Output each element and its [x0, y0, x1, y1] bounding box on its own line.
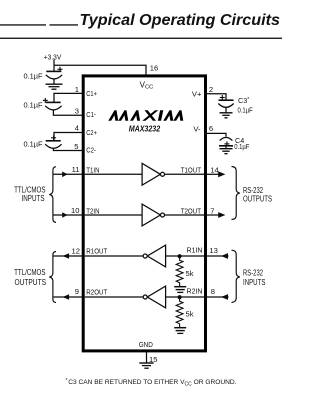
capacitor C2 0.1uF curved plate — [45, 144, 61, 148]
svg-text:11: 11 — [72, 165, 80, 174]
wire capacitor C4 to ground — [225, 146, 227, 149]
svg-text:T2IN: T2IN — [86, 206, 99, 215]
brace TTL/CMOS inputs — [49, 167, 56, 223]
svg-text:T2OUT: T2OUT — [181, 206, 202, 215]
svg-text:T1IN: T1IN — [86, 165, 99, 174]
svg-text:6: 6 — [209, 124, 213, 133]
wire pin 11 to T1 driver input — [85, 173, 142, 175]
svg-text:1: 1 — [75, 85, 79, 94]
svg-text:R1IN: R1IN — [187, 246, 203, 255]
wire pin 12 to R1 receiver — [85, 255, 143, 257]
resistor 5k (R2 input pulldown) — [176, 297, 183, 328]
arrow T1OUT output — [218, 171, 225, 177]
arrow T2IN input — [62, 212, 67, 218]
junction R2IN node — [178, 295, 182, 299]
wire T2IN input to pin 10 — [54, 214, 84, 216]
svg-text:OUTPUTS: OUTPUTS — [243, 195, 272, 204]
wire capacitor C3 to ground — [225, 107, 227, 112]
buffer T2 driver triangle — [142, 204, 160, 226]
wire pin 13 R1IN external — [206, 255, 229, 257]
capacitor C3 0.1uF curved plate — [218, 104, 233, 108]
polarity plus (C4) — [224, 141, 229, 146]
resistor 5k (R1 input pulldown) — [176, 256, 183, 287]
svg-text:10: 10 — [71, 206, 79, 215]
horizontal rule — [0, 38, 282, 39]
svg-text:C2+: C2+ — [86, 128, 97, 137]
wire pin 15 GND stub — [146, 351, 148, 363]
svg-text:0.1µF: 0.1µF — [24, 71, 44, 80]
svg-text:0.1µF: 0.1µF — [24, 140, 44, 149]
arrow R1OUT output — [63, 253, 70, 259]
svg-text:15: 15 — [149, 355, 157, 364]
svg-text:0.1µF: 0.1µF — [238, 106, 254, 115]
svg-text:MAX3232: MAX3232 — [129, 124, 161, 133]
brace RS-232 outputs — [232, 167, 240, 220]
polarity plus (C2) — [51, 135, 56, 140]
svg-text:7: 7 — [210, 207, 214, 216]
ground (C4) — [220, 148, 233, 150]
svg-text:C2-: C2- — [86, 146, 96, 155]
wire VCC rail to pin 16 — [54, 65, 146, 75]
wire R2 receiver output to pin 9 — [54, 296, 84, 298]
svg-text:INPUTS: INPUTS — [243, 278, 265, 287]
buffer T1 driver triangle — [142, 163, 160, 185]
svg-text:OUTPUTS: OUTPUTS — [15, 278, 47, 287]
capacitor 0.1uF (VCC bypass) curved plate — [46, 75, 62, 79]
buffer R2 receiver triangle — [147, 286, 165, 308]
svg-text:2: 2 — [209, 85, 213, 94]
svg-text:C1-: C1- — [86, 110, 96, 119]
svg-text:12: 12 — [72, 247, 80, 256]
svg-text:5k: 5k — [186, 310, 194, 319]
arrow T2OUT output — [218, 212, 225, 218]
svg-text:C1+: C1+ — [86, 89, 97, 98]
svg-text:*C3 CAN BE RETURNED TO EITHER: *C3 CAN BE RETURNED TO EITHER VCC OR GRO… — [66, 378, 237, 387]
arrow T1IN input — [62, 172, 67, 178]
svg-text:RS-232: RS-232 — [243, 269, 263, 278]
svg-text:Typical Operating Circuits: Typical Operating Circuits — [80, 12, 281, 29]
wire pin 1 C1+ to capacitor C1 — [54, 93, 83, 102]
capacitor C1 0.1uF curved plate — [45, 106, 61, 110]
ground (pin 15) — [139, 362, 153, 364]
wire R1 receiver input to pin 13 — [166, 255, 205, 257]
svg-text:9: 9 — [75, 287, 79, 296]
svg-text:14: 14 — [210, 166, 218, 175]
ground (bypass cap) — [46, 83, 63, 85]
wire R1 receiver output to pin 12 — [54, 255, 84, 257]
wire T1 driver output to pin 14 — [165, 173, 204, 175]
svg-text:16: 16 — [150, 64, 158, 73]
wire pin 2 V+ to capacitor C3 — [206, 94, 227, 100]
buffer T2 inverter bubble — [161, 213, 165, 217]
polarity plus (C1) — [43, 98, 48, 103]
svg-text:V+: V+ — [192, 89, 202, 98]
capacitor C2 0.1uF top plate — [46, 140, 61, 142]
arrow R2IN input — [221, 294, 228, 300]
svg-text:5k: 5k — [186, 269, 194, 278]
svg-text:R1OUT: R1OUT — [86, 247, 107, 256]
MAXIM logo — [108, 110, 185, 121]
wire capacitor C2 to pin 5 C2- — [53, 148, 83, 150]
wire T2 driver output to pin 7 — [165, 214, 204, 216]
svg-text:R2OUT: R2OUT — [86, 288, 107, 297]
svg-text:GND: GND — [139, 340, 153, 349]
svg-text:T1OUT: T1OUT — [181, 165, 202, 174]
arrow R1IN input — [221, 253, 228, 259]
wire pin 4 C2+ to capacitor C2 — [54, 133, 83, 141]
svg-text:4: 4 — [75, 124, 79, 133]
capacitor C3 0.1uF top plate — [219, 99, 234, 101]
svg-text:INPUTS: INPUTS — [22, 194, 45, 203]
wire pin 14 T1OUT external — [206, 173, 219, 175]
wire R2 receiver input to pin 8 — [166, 296, 205, 298]
svg-text:0.1µF: 0.1µF — [234, 142, 250, 151]
buffer R1 receiver triangle — [147, 245, 165, 267]
ground (R2 5k) — [174, 327, 186, 329]
svg-text:3: 3 — [75, 107, 79, 116]
wire capacitor C1 to pin 3 C1- — [53, 110, 83, 115]
svg-text:5: 5 — [74, 142, 78, 151]
capacitor C1 0.1uF top plate — [46, 101, 61, 103]
capacitor 0.1uF (VCC bypass) top plate — [46, 70, 61, 72]
svg-text:0.1µF: 0.1µF — [24, 101, 44, 110]
wire T1IN input to pin 11 — [54, 173, 84, 175]
polarity plus (C3) — [220, 95, 225, 100]
wire pin 10 to T2 driver input — [85, 214, 142, 216]
IC U1 MAX3232 body outline — [83, 76, 205, 351]
wire bypass cap top stub — [53, 65, 55, 71]
brace TTL/CMOS outputs — [49, 252, 56, 303]
wire pin 6 V- to capacitor C4 — [206, 133, 227, 136]
ground (C3) — [220, 112, 233, 114]
brace RS-232 inputs — [232, 250, 240, 302]
svg-text:V-: V- — [193, 124, 201, 133]
ground (R1 5k) — [174, 286, 186, 288]
capacitor C4 0.1uF bottom plate — [219, 145, 233, 147]
wire pin 9 to R2 receiver — [85, 296, 143, 298]
wire pin 7 T2OUT external — [206, 214, 219, 216]
wire bypass cap to ground — [53, 79, 55, 84]
buffer R1 inverter bubble — [143, 254, 147, 258]
arrow R2OUT output — [63, 294, 70, 300]
junction R1IN node — [178, 254, 182, 258]
svg-text:+3.3V: +3.3V — [44, 52, 62, 61]
title leader line — [0, 24, 78, 26]
svg-text:R2IN: R2IN — [187, 287, 203, 296]
polarity plus (bypass cap) — [58, 67, 63, 72]
buffer R2 inverter bubble — [143, 295, 147, 299]
capacitor C4 0.1uF curved plate — [220, 137, 233, 140]
wire pin 8 R2IN external — [206, 296, 229, 298]
svg-text:8: 8 — [211, 287, 215, 296]
svg-text:TTL/CMOS: TTL/CMOS — [14, 268, 45, 277]
buffer T1 inverter bubble — [161, 172, 165, 176]
svg-text:13: 13 — [209, 246, 217, 255]
wire +3.3V stub — [53, 60, 55, 66]
